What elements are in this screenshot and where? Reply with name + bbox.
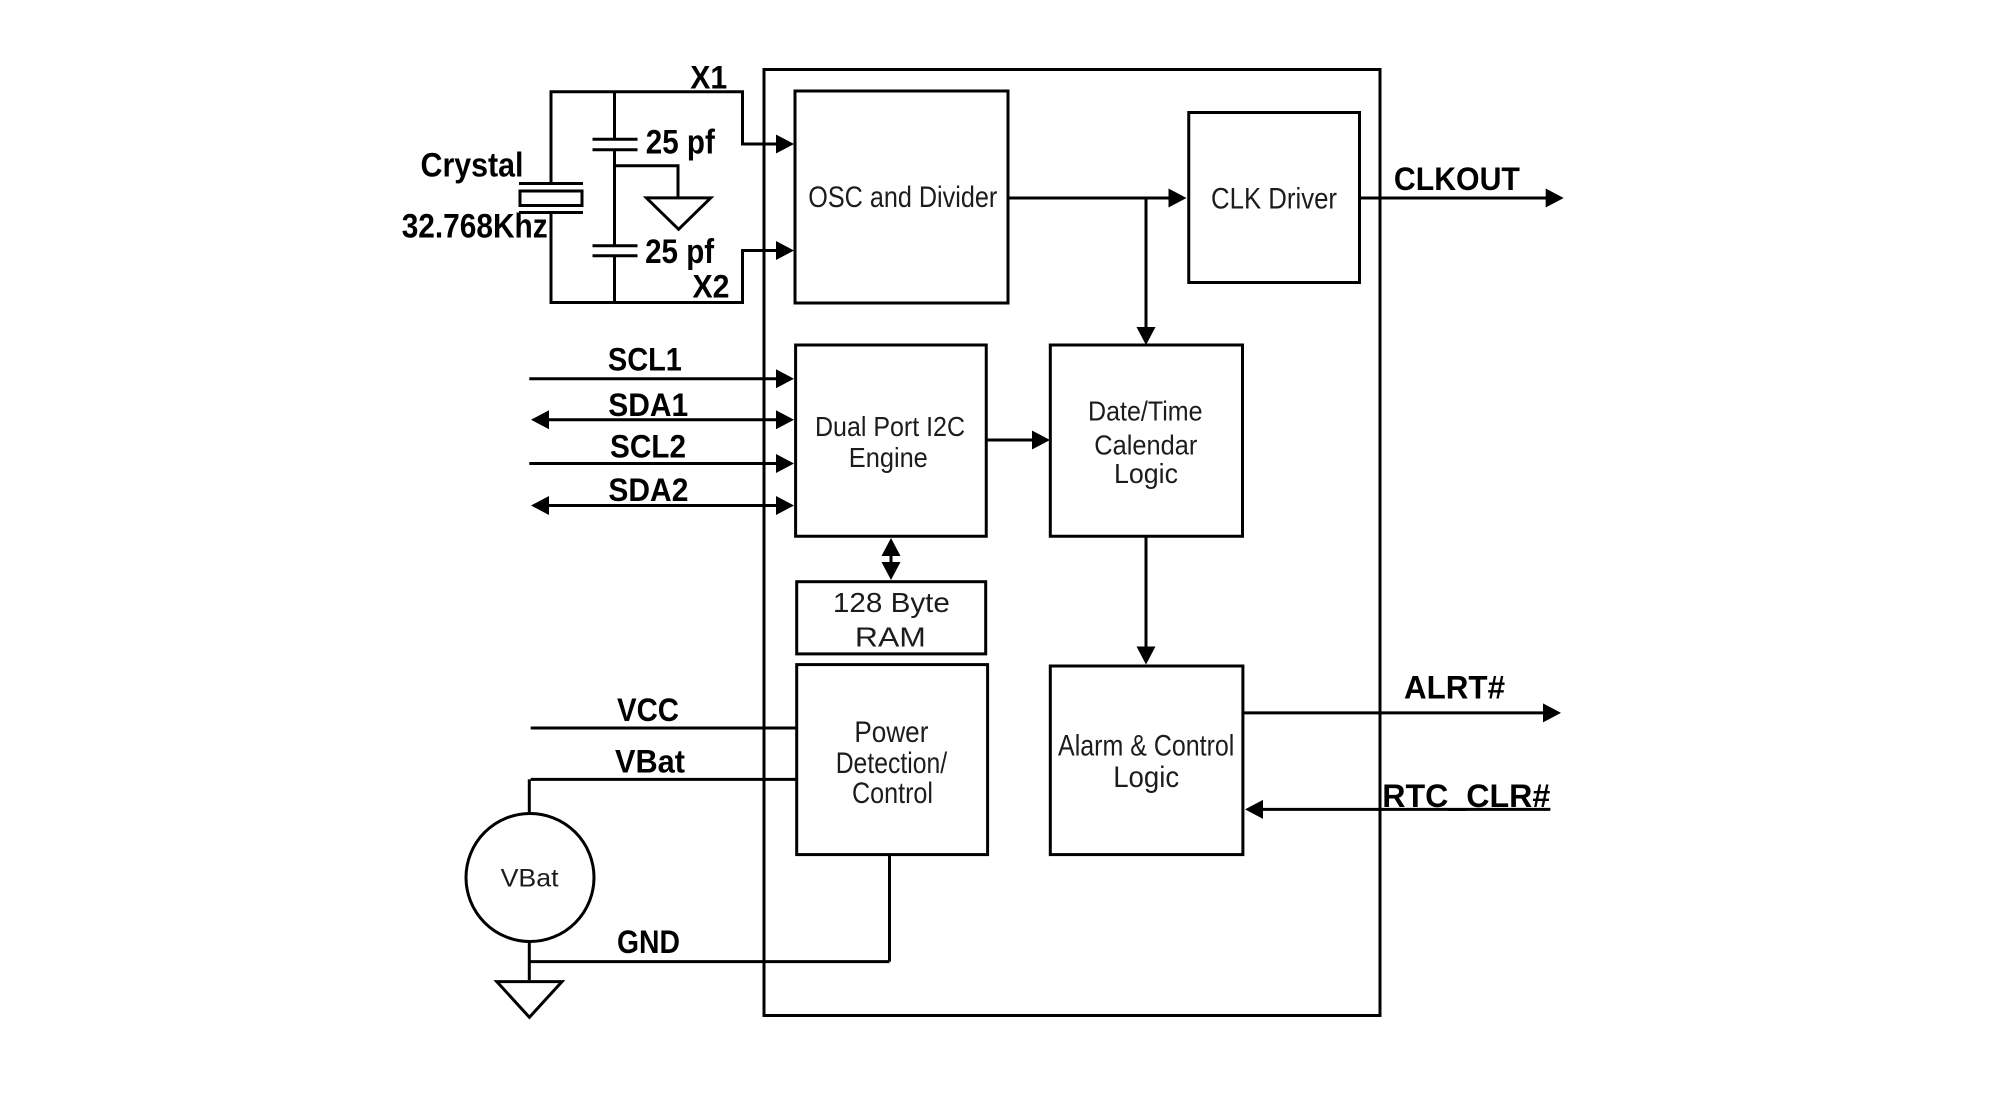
svg-text:Crystal: Crystal xyxy=(421,147,524,185)
wire: ALRT# xyxy=(1243,711,1545,714)
Date/Time Calendar Logic block U4 xyxy=(1050,345,1242,536)
Dual Port I2C Engine block U3 xyxy=(796,345,987,536)
svg-text:Alarm & Control: Alarm & Control xyxy=(1058,730,1234,763)
wire: crystal loop bottom + X2 stub xyxy=(551,213,777,303)
wire: capacitor branch vertical xyxy=(613,92,616,303)
svg-text:Calendar: Calendar xyxy=(1094,429,1197,460)
wire: CLKOUT xyxy=(1360,197,1548,200)
crystal Y1 symbol plates xyxy=(519,184,583,213)
svg-text:ALRT#: ALRT# xyxy=(1404,669,1505,705)
svg-text:X2: X2 xyxy=(693,269,730,305)
arrowhead X2 into OSC xyxy=(776,241,794,260)
wire: Dual Port to Date/Time xyxy=(986,439,1033,442)
svg-text:RAM: RAM xyxy=(855,621,926,652)
Power Detection/Control block U6 xyxy=(797,665,988,855)
wire: battery bottom stem xyxy=(528,941,531,980)
svg-text:X1: X1 xyxy=(690,59,727,95)
chip outer boundary box xyxy=(764,70,1380,1016)
ground symbol (crystal) xyxy=(646,198,710,229)
battery source VBat circle xyxy=(466,814,594,942)
crystal Y1 body xyxy=(520,191,582,206)
svg-text:32.768Khz: 32.768Khz xyxy=(402,208,548,246)
svg-text:SDA1: SDA1 xyxy=(608,387,688,423)
arrowhead SCL2 into I2C xyxy=(776,454,794,473)
arrowhead CLKOUT xyxy=(1546,189,1564,208)
wire: RTC_CLR# xyxy=(1262,808,1550,811)
arrowhead down into Date/Time xyxy=(1137,327,1156,345)
svg-text:25 pf: 25 pf xyxy=(645,233,715,271)
OSC and Divider block U1 xyxy=(795,91,1008,303)
arrowhead SDA2 right xyxy=(776,496,794,515)
svg-text:128 Byte: 128 Byte xyxy=(833,587,950,618)
arrowhead ALRT# xyxy=(1543,703,1561,722)
arrowhead SDA1 right xyxy=(776,410,794,429)
CLK Driver block U2 xyxy=(1189,113,1360,283)
arrowhead SDA2 left xyxy=(531,496,549,515)
wire: VCC xyxy=(531,727,797,730)
svg-text:GND: GND xyxy=(617,924,680,960)
svg-text:SDA2: SDA2 xyxy=(608,472,688,508)
svg-text:25 pf: 25 pf xyxy=(646,124,716,162)
svg-text:Date/Time: Date/Time xyxy=(1088,396,1203,427)
arrowhead RAM link down xyxy=(882,562,901,580)
wire: SDA1 xyxy=(548,418,777,421)
capacitor C2 25pf plates xyxy=(593,246,638,256)
svg-text:VCC: VCC xyxy=(617,692,679,728)
arrowhead SCL1 into I2C xyxy=(776,369,794,388)
svg-text:SCL2: SCL2 xyxy=(610,429,686,465)
128 Byte RAM block U5 xyxy=(797,582,986,654)
wire: crystal loop top + X1 stub xyxy=(551,92,777,184)
svg-text:Dual Port I2C: Dual Port I2C xyxy=(815,411,965,442)
capacitor C1 25pf plates xyxy=(593,139,638,149)
svg-text:Engine: Engine xyxy=(849,442,928,473)
arrowhead down into Alarm xyxy=(1137,647,1156,665)
wire: SCL2 xyxy=(529,462,777,465)
svg-text:CLK Driver: CLK Driver xyxy=(1211,183,1337,216)
wire: Date/Time down to Alarm xyxy=(1145,536,1148,648)
svg-text:Power: Power xyxy=(854,716,928,749)
wire: OSC to CLK Driver xyxy=(1008,197,1170,200)
wire: branch down to Date/Time xyxy=(1145,198,1148,329)
svg-text:Control: Control xyxy=(852,777,933,810)
svg-text:RTC_CLR#: RTC_CLR# xyxy=(1382,778,1550,814)
arrowhead SDA1 left xyxy=(531,410,549,429)
svg-text:CLKOUT: CLKOUT xyxy=(1394,161,1520,197)
svg-text:OSC and Divider: OSC and Divider xyxy=(808,181,997,214)
Alarm & Control Logic block U7 xyxy=(1050,666,1243,855)
wire: RAM double arrow shaft xyxy=(890,549,893,569)
svg-text:VBat: VBat xyxy=(615,744,685,780)
wire: ground branch from capacitor mid xyxy=(615,166,679,197)
arrowhead into CLK Driver xyxy=(1169,189,1187,208)
arrowhead into Date/Time from I2C xyxy=(1032,431,1050,450)
wire: SCL1 xyxy=(529,377,777,380)
arrowhead RAM link up xyxy=(882,538,901,556)
wire: GND xyxy=(529,855,889,962)
svg-text:VBat: VBat xyxy=(501,864,559,892)
wire: SDA2 xyxy=(548,504,777,507)
svg-text:Detection/: Detection/ xyxy=(836,747,948,780)
arrowhead X1 into OSC xyxy=(776,135,794,154)
wire: VBat + stem to battery xyxy=(529,779,796,813)
svg-text:SCL1: SCL1 xyxy=(608,342,682,378)
ground symbol (battery) xyxy=(497,982,562,1018)
svg-text:Logic: Logic xyxy=(1113,761,1179,794)
svg-text:Logic: Logic xyxy=(1114,458,1178,489)
arrowhead RTC_CLR# into Alarm xyxy=(1245,800,1263,819)
